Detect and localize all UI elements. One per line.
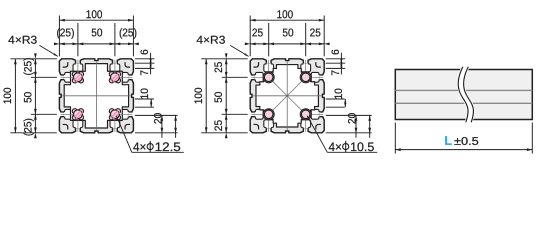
right ext lines 6/7: [326, 59, 346, 69]
profile A (HFS8-100100) tapping hole at (25,25): [72, 72, 83, 83]
profile A (HFS8-100100) outer silhouette: [59, 59, 133, 133]
profile B (HFSL8-100100) core hole at (25,25): [263, 72, 274, 83]
dimension row 25/50/25 (left): [22, 53, 36, 138]
svg-text:50: 50: [282, 27, 293, 39]
right ext lines 10/20: [135, 99, 178, 133]
svg-text:50: 50: [213, 92, 225, 103]
svg-text:4×R3: 4×R3: [8, 35, 37, 47]
profile A (HFS8-100100) tapping hole at (75,75): [109, 109, 120, 120]
dimension row 25/50/25 (top): [54, 27, 139, 45]
profile A (HFS8-100100) tapping hole at (75,25): [109, 72, 120, 83]
profile B (HFSL8-100100) core hole at (75,25): [300, 72, 311, 83]
svg-text:25: 25: [310, 27, 321, 39]
dimension L±0.5: [395, 134, 532, 151]
side view bar body: [395, 70, 532, 120]
svg-text:10: 10: [333, 88, 345, 99]
profile B (HFSL8-100100) core hole at (75,75): [300, 109, 311, 120]
svg-text:25: 25: [213, 62, 225, 73]
dimension 100 (top): [250, 9, 324, 21]
top dimension extension lines: [250, 16, 324, 57]
dimension 10 (right): [333, 88, 346, 107]
dimension 100 (top): [59, 9, 133, 21]
profile B (HFSL8-100100) slot center lines: [251, 60, 323, 132]
top dimension extension lines: [59, 16, 133, 57]
profile B (HFSL8-100100) center lines: [253, 62, 321, 130]
svg-text:4×: 4×: [133, 140, 146, 154]
L dimension extension lines: [395, 123, 532, 154]
profile A (HFS8-100100) tapping hole at (25,75): [72, 109, 83, 120]
svg-text:6: 6: [139, 49, 151, 55]
profile A (HFS8-100100) slot chambers: [64, 63, 129, 128]
profile A (HFS8-100100) slot center lines: [61, 60, 133, 132]
svg-text:10.5: 10.5: [350, 140, 374, 154]
svg-text:7: 7: [139, 70, 151, 76]
svg-text:100: 100: [2, 88, 14, 105]
profile A (HFS8-100100) center lines: [62, 62, 130, 130]
svg-text:100: 100: [86, 9, 103, 21]
left dimension extension lines: [10, 59, 57, 133]
leader label 4×φ10.5: [307, 116, 377, 154]
svg-text:25: 25: [252, 27, 263, 39]
svg-text:25: 25: [213, 120, 225, 131]
svg-text:50: 50: [22, 92, 34, 103]
svg-text:20: 20: [152, 113, 164, 124]
svg-text:(25): (25): [119, 27, 137, 39]
svg-text:(25): (25): [22, 57, 34, 75]
dimension 10 (right): [139, 88, 152, 107]
svg-text:6: 6: [330, 49, 342, 55]
profile B (HFSL8-100100) core hole at (25,75): [263, 109, 274, 120]
profile B (HFSL8-100100) outer silhouette: [250, 59, 324, 133]
svg-text:10: 10: [139, 88, 151, 99]
dimension 100 (left): [193, 59, 208, 133]
dimension 20 (right): [347, 113, 372, 138]
svg-text:±0.5: ±0.5: [454, 136, 479, 148]
svg-text:4×R3: 4×R3: [196, 35, 225, 47]
dimension row 25/50/25 (top): [245, 27, 330, 45]
svg-text:L: L: [444, 134, 452, 148]
right ext lines 6/7: [135, 59, 155, 69]
svg-text:(25): (25): [22, 118, 34, 136]
label 4×R3: [8, 35, 58, 57]
svg-text:7: 7: [330, 70, 342, 76]
svg-text:(25): (25): [56, 27, 74, 39]
dimension 100 (left): [2, 59, 17, 133]
dimension 20 (right): [152, 113, 177, 138]
svg-text:100: 100: [193, 88, 205, 105]
svg-text:12.5: 12.5: [155, 140, 181, 154]
label 4×R3: [196, 35, 248, 57]
left dimension extension lines: [201, 59, 248, 133]
leader label 4×φ12.5: [116, 116, 183, 154]
right ext lines 10/20: [326, 99, 372, 133]
dimension 6 (right): [330, 49, 342, 75]
profile B (HFSL8-100100) center cavity: [256, 65, 318, 127]
svg-text:4×: 4×: [328, 140, 341, 154]
profile B (HFSL8-100100) slot chambers: [255, 63, 320, 128]
dimension row 25/50/25 (left): [213, 53, 227, 138]
svg-text:100: 100: [277, 9, 294, 21]
dimension 6 (right): [139, 49, 151, 75]
profile A (HFS8-100100) corner steps: [63, 62, 130, 129]
profile B (HFSL8-100100) diagonal center lines: [264, 73, 310, 119]
svg-text:20: 20: [347, 113, 359, 124]
profile A (HFS8-100100) center cavity: [64, 64, 128, 128]
side view slot groove lines: [395, 90, 532, 103]
svg-text:50: 50: [91, 27, 102, 39]
break symbol: [458, 67, 473, 123]
profile B (HFSL8-100100) corner steps: [254, 62, 321, 129]
